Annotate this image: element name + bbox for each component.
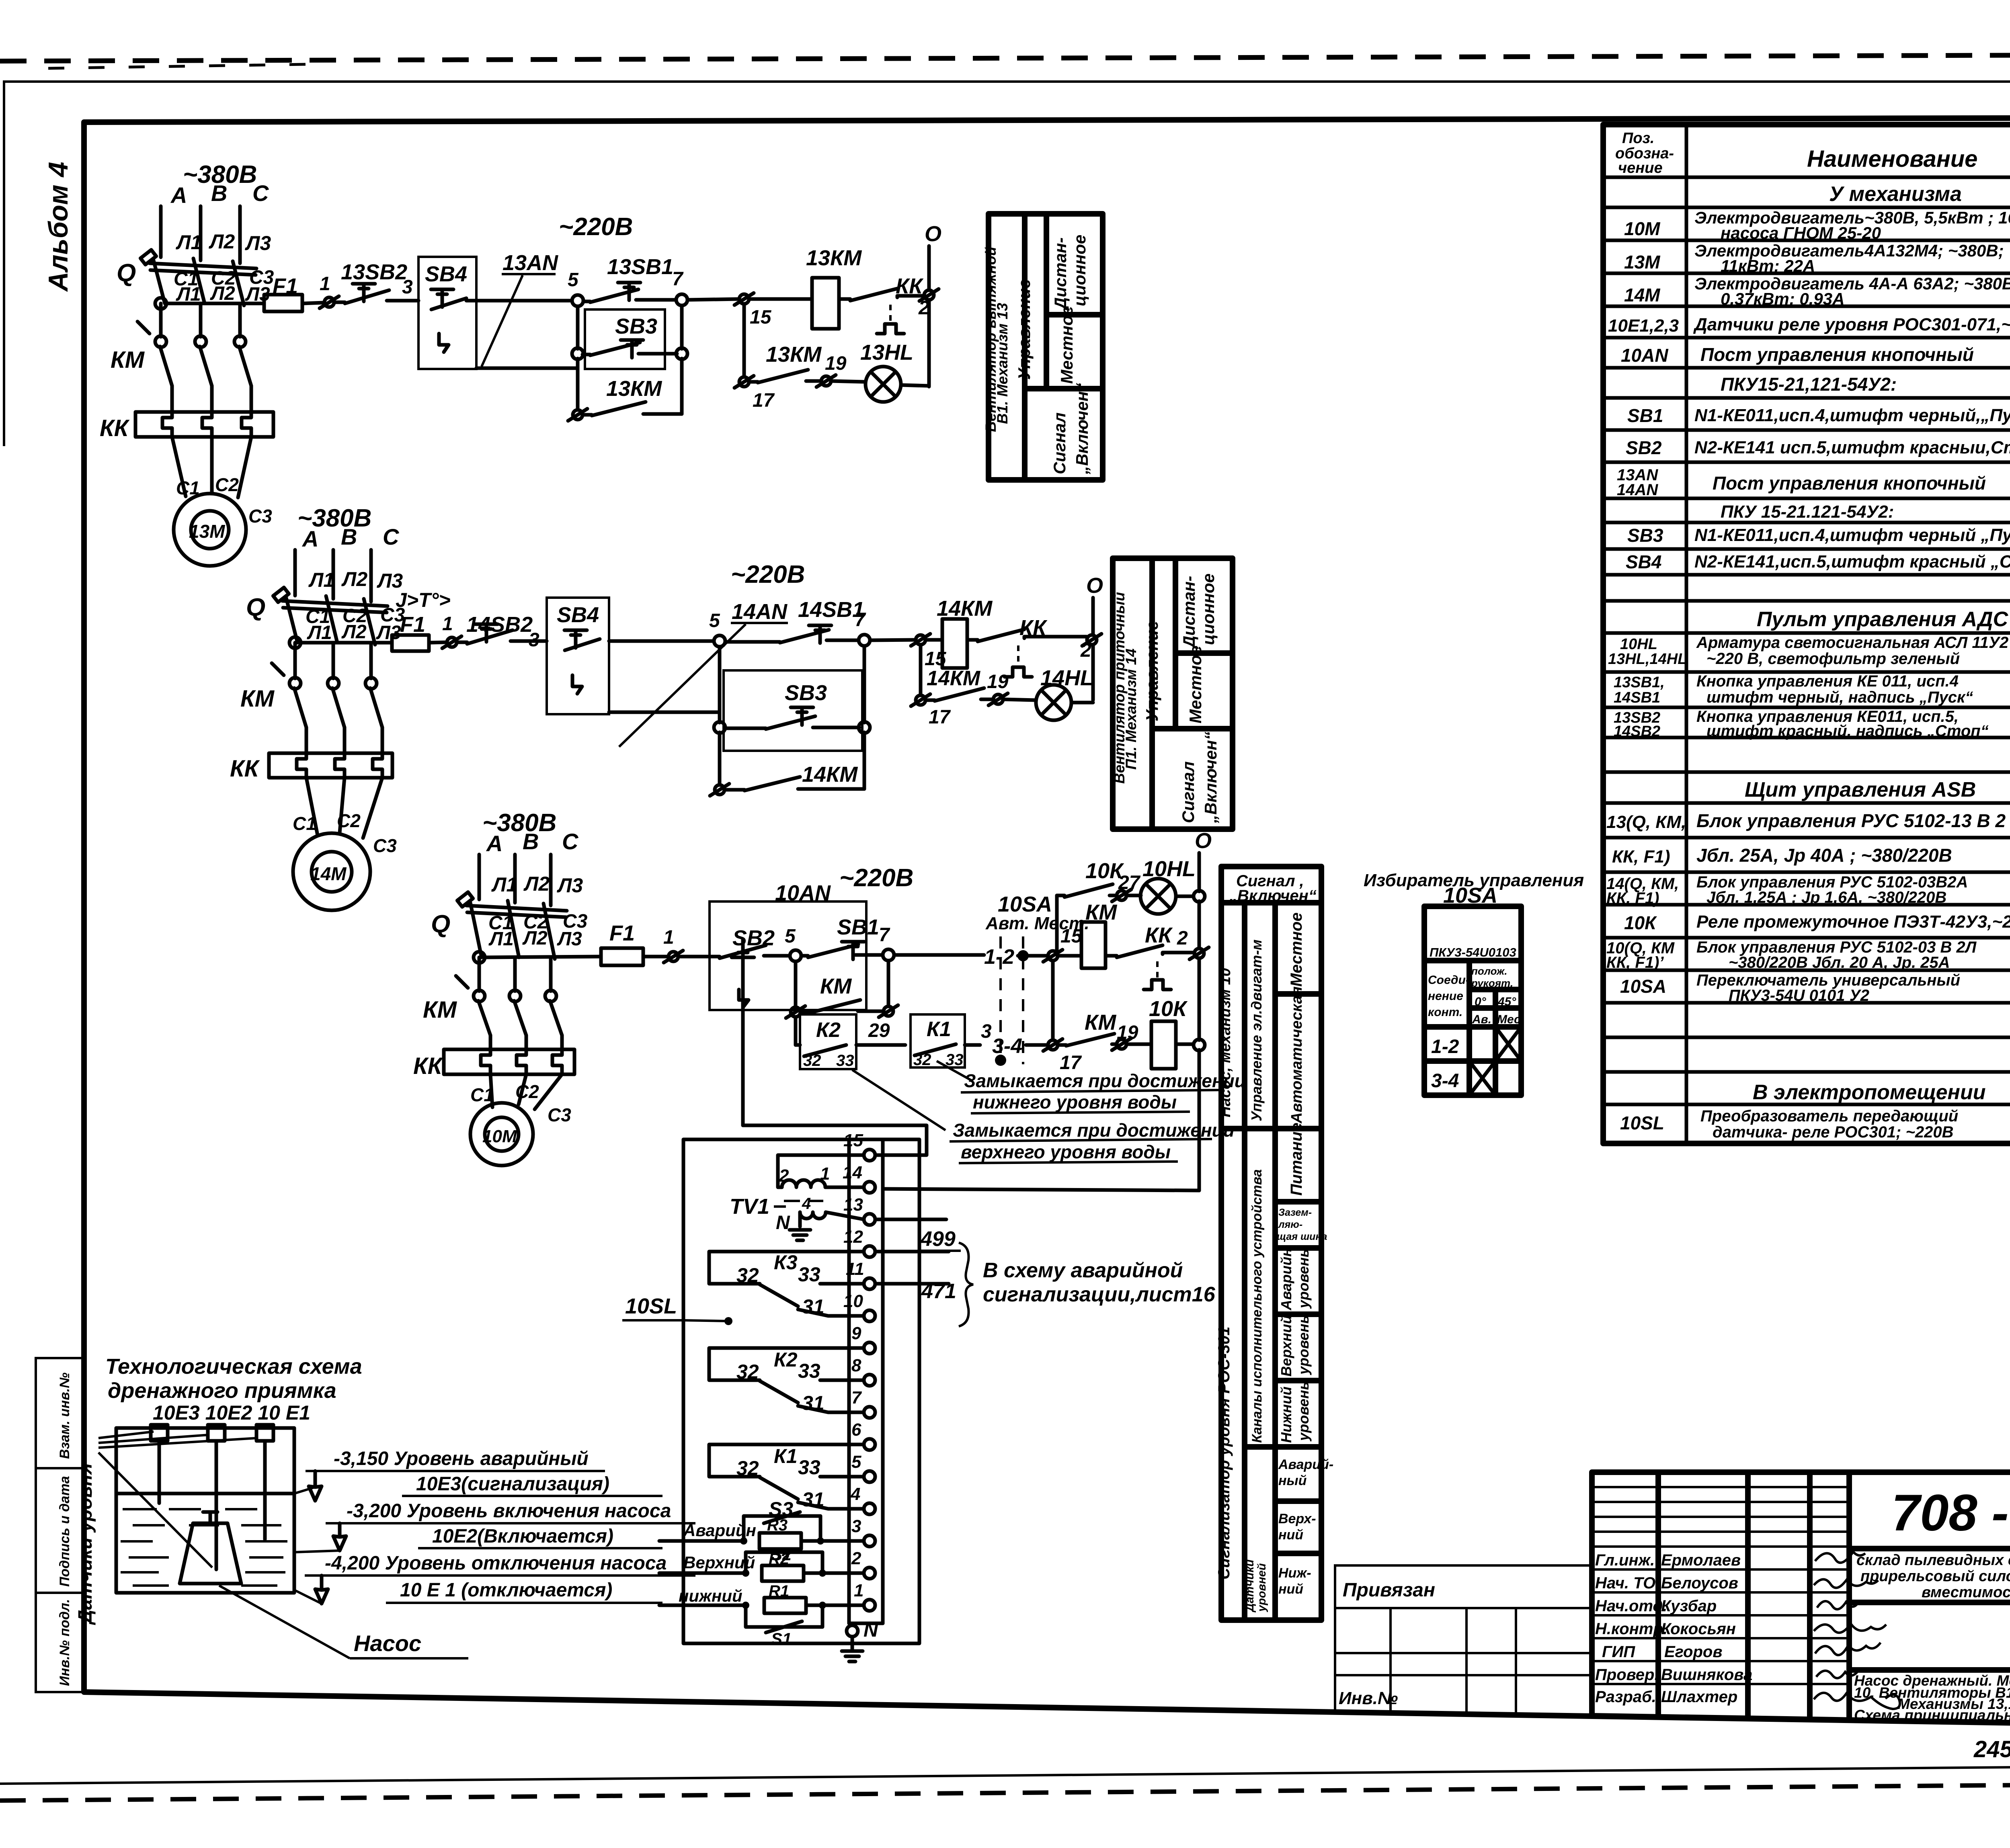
svg-text:Альбом 4: Альбом 4 (43, 162, 74, 292)
svg-text:Сигнализатор уровня РОС-301: Сигнализатор уровня РОС-301 (1215, 1327, 1233, 1580)
wire : bottom tear dashed line (0, 1782, 2010, 1801)
control rung 14 (289, 561, 1103, 796)
svg-text:24533 - 04: 24533 - 04 (1973, 1736, 2010, 1762)
contactor KM main contacts (240, 663, 382, 753)
thermal relay KK (230, 753, 392, 782)
contact KK (967, 638, 978, 642)
svg-text:Л1: Л1 (307, 622, 332, 643)
control rung 13 (155, 213, 941, 421)
svg-text:Л3: Л3 (557, 928, 582, 950)
svg-text:КК: КК (100, 415, 130, 441)
svg-text:В1. Механизм 13: В1. Механизм 13 (994, 303, 1011, 424)
svg-text:ПКУ15-21,121-54У2:: ПКУ15-21,121-54У2: (1721, 374, 1897, 395)
svg-text:Питание: Питание (1288, 1123, 1305, 1196)
svg-text:R3: R3 (767, 1516, 788, 1534)
svg-text:R2: R2 (769, 1550, 789, 1568)
svg-text:2: 2 (1177, 928, 1188, 949)
svg-text:Наименование: Наименование (1807, 146, 1977, 172)
svg-text:SB2: SB2 (732, 926, 775, 950)
svg-text:19: 19 (1117, 1022, 1138, 1043)
svg-text:Соеди-: Соеди- (1428, 973, 1470, 987)
svg-text:~220В: ~220В (731, 561, 805, 588)
svg-text:1: 1 (820, 1164, 830, 1184)
wire : phase A vertical (159, 206, 163, 257)
svg-text:прирельсовый силосного типа (: прирельсовый силосного типа (мобильный) (1860, 1568, 2010, 1585)
svg-text:Шлахтер: Шлахтер (1661, 1688, 1737, 1706)
svg-text:-3,200 Уровень включения насо: -3,200 Уровень включения насоса (347, 1500, 671, 1522)
svg-text:Пост управления кнопочный: Пост управления кнопочный (1700, 344, 1974, 365)
svg-text:Ниж-: Ниж- (1278, 1565, 1311, 1581)
motor 14M (293, 833, 370, 910)
sensor 10E1 (256, 1425, 273, 1441)
svg-text:нижнего уровня воды: нижнего уровня воды (973, 1092, 1177, 1112)
svg-text:уровней: уровней (1255, 1563, 1268, 1612)
wire : top tear dashed line (0, 54, 2010, 61)
svg-text:5: 5 (851, 1452, 861, 1472)
svg-text:10AN: 10AN (1621, 345, 1668, 366)
svg-text:32: 32 (736, 1360, 759, 1383)
contact KK (839, 297, 850, 301)
svg-text:10HL: 10HL (1620, 636, 1657, 653)
svg-text:10М: 10М (1624, 218, 1661, 239)
svg-text:A: A (301, 526, 318, 551)
svg-text:ПКУ3-54U 0101 У2: ПКУ3-54U 0101 У2 (1729, 987, 1869, 1004)
svg-text:Белоусов: Белоусов (1661, 1574, 1738, 1592)
svg-text:В: В (211, 180, 227, 206)
contact K3 (709, 1251, 864, 1318)
wire : phase drops to KM (159, 303, 163, 337)
svg-text:N: N (863, 1619, 878, 1641)
svg-text:Л1: Л1 (176, 231, 202, 254)
svg-text:33: 33 (836, 1052, 854, 1069)
svg-text:Насос: Насос (354, 1631, 421, 1656)
svg-text:КК, F1): КК, F1) (1612, 847, 1670, 867)
svg-text:14КМ: 14КМ (802, 762, 858, 787)
wire : motor leads (490, 1074, 492, 1107)
svg-text:Л2: Л2 (209, 230, 235, 253)
ROS-301 block (622, 1131, 1216, 1662)
svg-text:„Включен“: „Включен“ (1073, 383, 1091, 475)
wire : phase verticals (478, 854, 481, 899)
svg-text:Замыкается при достижении: Замыкается при достижении (964, 1070, 1246, 1091)
svg-text:Замыкается при достижении: Замыкается при достижении (953, 1120, 1235, 1141)
svg-text:КК: КК (230, 756, 260, 782)
wire (609, 639, 714, 643)
svg-text:10: 10 (843, 1291, 863, 1311)
svg-text:Q: Q (246, 594, 265, 621)
sensor channel R2/S2 (659, 1545, 864, 1581)
svg-text:КК, F1)’: КК, F1)’ (1606, 954, 1664, 971)
svg-text:29: 29 (868, 1020, 890, 1041)
node : signatures (1814, 1552, 1900, 1709)
svg-text:С2: С2 (215, 474, 239, 495)
button SB4 (431, 289, 453, 307)
svg-text:10HL: 10HL (1142, 857, 1196, 881)
svg-text:уровень: уровень (1295, 1249, 1312, 1309)
node : sensors leader lines (98, 1432, 154, 1438)
svg-text:14SB1: 14SB1 (1614, 689, 1660, 706)
svg-text:Jбл. 1,25А ; Jр 1,6А, ~380/22: Jбл. 1,25А ; Jр 1,6А, ~380/220В (1706, 889, 1946, 906)
svg-text:сигнализации,лист16: сигнализации,лист16 (983, 1283, 1216, 1306)
svg-text:7: 7 (672, 268, 684, 290)
svg-text:708 - 57.90-ЭМ: 708 - 57.90-ЭМ (1891, 1484, 2010, 1542)
motor 13M (174, 494, 246, 566)
svg-text:SB1: SB1 (837, 915, 879, 939)
svg-text:Авт. Мест.: Авт. Мест. (985, 914, 1089, 933)
svg-text:КК: КК (413, 1053, 443, 1079)
svg-text:12: 12 (843, 1227, 863, 1247)
svg-text:С2: С2 (515, 1081, 539, 1102)
svg-text:Нач.отд.: Нач.отд. (1595, 1597, 1667, 1615)
svg-text:КМ: КМ (111, 347, 145, 373)
svg-text:32: 32 (736, 1264, 759, 1287)
svg-text:33: 33 (946, 1051, 964, 1069)
svg-text:Поз.: Поз. (1622, 130, 1655, 147)
svg-text:11кВт; 22А: 11кВт; 22А (1721, 256, 1815, 275)
lamp branch 10K/10HL (1055, 895, 1059, 951)
svg-text:ционное: ционное (1199, 574, 1218, 645)
svg-text:19: 19 (825, 353, 847, 374)
svg-text:471: 471 (921, 1280, 956, 1303)
svg-text:J>T°>: J>T°> (396, 589, 451, 611)
svg-text:„Включен“: „Включен“ (1201, 731, 1220, 824)
svg-text:С3: С3 (548, 1104, 571, 1125)
thermal relay KK (100, 412, 273, 441)
svg-text:Л2: Л2 (522, 928, 548, 949)
branch SB3 (576, 306, 580, 349)
wire : bus to fuse (474, 952, 485, 963)
svg-text:Автоматическая: Автоматическая (1288, 986, 1305, 1124)
thermal relay KK (413, 1049, 574, 1079)
switch Q (431, 892, 567, 959)
svg-text:Гл.инж.: Гл.инж. (1595, 1551, 1655, 1569)
svg-text:вместимостью 0,5 тыс.тонн: вместимостью 0,5 тыс.тонн (1922, 1584, 2010, 1601)
svg-text:4: 4 (802, 1195, 811, 1213)
svg-text:13М: 13М (189, 521, 226, 542)
svg-text:10М: 10М (482, 1127, 517, 1146)
svg-text:33: 33 (798, 1360, 820, 1382)
node : table frame (1603, 125, 2010, 1143)
svg-text:конт.: конт. (1428, 1006, 1462, 1019)
svg-text:13М: 13М (1624, 252, 1661, 272)
svg-text:Ермолаев: Ермолаев (1661, 1551, 1741, 1569)
node : left margin boxes (36, 1358, 84, 1692)
svg-text:14КМ: 14КМ (927, 667, 981, 690)
wire : thin outer border (4, 82, 2010, 446)
svg-text:Кнопка управления КЕ 011, исп.: Кнопка управления КЕ 011, исп.4 (1696, 672, 1959, 690)
svg-text:Преобразователь передающий: Преобразователь передающий (1700, 1107, 1958, 1125)
svg-text:Л2: Л2 (341, 568, 367, 590)
svg-text:13(Q, КМ,: 13(Q, КМ, (1606, 812, 1686, 832)
wire : phase C vertical (238, 206, 242, 263)
title block (1335, 1472, 2010, 1765)
node : outer box (683, 1139, 919, 1643)
svg-text:Инв.№ подл.: Инв.№ подл. (57, 1599, 72, 1686)
wire : bus to fuse (289, 637, 301, 648)
svg-text:Пульт управления АДС: Пульт управления АДС (1757, 608, 2009, 631)
svg-text:10Е3(сигнализация): 10Е3(сигнализация) (416, 1473, 609, 1495)
svg-text:Л2: Л2 (341, 621, 367, 643)
svg-text:Jбл. 25А, Jр 40А ; ~380/220В: Jбл. 25А, Jр 40А ; ~380/220В (1696, 845, 1952, 866)
svg-text:Аварийн.: Аварийн. (1278, 1244, 1294, 1311)
svg-text:С3: С3 (248, 506, 272, 527)
contact K2 (709, 1348, 864, 1414)
svg-text:9: 9 (851, 1324, 861, 1343)
svg-text:Q: Q (431, 910, 450, 938)
svg-text:Местное: Местное (1186, 645, 1205, 723)
node 15 (734, 293, 754, 305)
svg-text:10Е2(Включается): 10Е2(Включается) (432, 1526, 613, 1547)
post 10AN box (710, 901, 866, 1010)
node : water hatch (121, 1509, 287, 1586)
svg-text:Нижний: Нижний (1278, 1387, 1294, 1443)
node : terminals 1..15 (843, 1131, 875, 1611)
svg-text:Управление: Управление (1142, 621, 1161, 721)
svg-text:В: В (341, 524, 357, 549)
wire : link from SB4 box (476, 367, 578, 370)
sensor channel R3/S3 (659, 1498, 864, 1549)
wire to selector (894, 953, 984, 957)
svg-text:13: 13 (843, 1195, 863, 1215)
svg-text:КМ: КМ (240, 686, 275, 712)
node N ground (842, 1619, 878, 1662)
svg-text:ПКУ 15-21.121-54У2:: ПКУ 15-21.121-54У2: (1721, 502, 1894, 522)
svg-text:КК, F1): КК, F1) (1606, 889, 1659, 907)
svg-text:10SL: 10SL (625, 1294, 677, 1318)
svg-text:F1: F1 (609, 921, 635, 945)
contact KK (1105, 954, 1117, 958)
svg-text:Н.контр.: Н.контр. (1595, 1620, 1667, 1638)
svg-text:Л3: Л3 (245, 232, 271, 254)
note : closes at lower level (852, 1061, 1246, 1163)
svg-text:КК: КК (1145, 923, 1173, 947)
svg-text:15: 15 (843, 1131, 863, 1150)
svg-text:Л1: Л1 (308, 569, 334, 591)
svg-text:7: 7 (879, 924, 890, 946)
transformer TV1 (730, 1155, 864, 1240)
svg-text:0,37кВт; 0,93А: 0,37кВт; 0,93А (1721, 289, 1844, 308)
svg-text:13SB1: 13SB1 (607, 255, 673, 279)
svg-text:5: 5 (568, 269, 579, 291)
wire : small top grid (1592, 1487, 1849, 1532)
wire (870, 640, 916, 640)
svg-text:5: 5 (785, 926, 796, 947)
svg-text:Взам. инв.№: Взам. инв.№ (57, 1373, 72, 1459)
svg-text:13HL: 13HL (860, 340, 913, 365)
svg-text:A: A (170, 182, 187, 208)
wire : row lines (1603, 207, 2010, 1104)
lamp branch (919, 645, 923, 695)
svg-text:Л3: Л3 (557, 874, 583, 897)
svg-text:10AN: 10AN (775, 881, 831, 905)
svg-text:верхнего уровня воды: верхнего уровня воды (961, 1141, 1171, 1162)
svg-text:32: 32 (913, 1051, 931, 1069)
svg-text:У механизма: У механизма (1829, 182, 1962, 206)
motor 10M (470, 1103, 533, 1166)
svg-text:Местное: Местное (1288, 912, 1305, 987)
svg-text:нение: нение (1428, 990, 1463, 1003)
svg-text:3: 3 (402, 277, 413, 298)
svg-text:полож.: полож. (1471, 965, 1507, 977)
svg-text:17: 17 (753, 390, 775, 411)
wire (687, 299, 739, 300)
svg-text:Блок управления РУС 5102-13 В: Блок управления РУС 5102-13 В 2 В (1696, 810, 2010, 831)
svg-text:8: 8 (851, 1356, 861, 1375)
svg-text:3-4: 3-4 (992, 1035, 1022, 1058)
svg-text:1-2: 1-2 (984, 945, 1014, 969)
svg-text:Л3: Л3 (376, 622, 401, 643)
svg-text:С2: С2 (337, 810, 361, 831)
svg-text:~220 В, светофильтр зеленый: ~220 В, светофильтр зеленый (1706, 650, 1960, 668)
wire : bottom thin line (0, 1764, 2010, 1784)
svg-text:27: 27 (1118, 872, 1141, 893)
svg-text:С: С (383, 524, 400, 549)
svg-text:Л1: Л1 (488, 928, 514, 950)
svg-text:Л1: Л1 (491, 873, 517, 896)
svg-text:-4,200 Уровень отключения насо: -4,200 Уровень отключения насоса (325, 1553, 667, 1574)
svg-text:33: 33 (798, 1263, 820, 1286)
node : roles and names (1595, 1551, 1752, 1706)
svg-text:Верх-: Верх- (1278, 1511, 1316, 1526)
svg-text:14: 14 (843, 1163, 862, 1182)
wire : phase B vertical (199, 206, 203, 260)
svg-text:14М: 14М (1624, 285, 1661, 305)
svg-text:ный: ный (1278, 1473, 1307, 1488)
svg-text:Кузбар: Кузбар (1661, 1597, 1717, 1615)
svg-text:К2: К2 (816, 1018, 841, 1042)
svg-text:32: 32 (803, 1052, 821, 1069)
svg-text:К3: К3 (774, 1251, 798, 1274)
svg-text:датчика- реле РОС301; ~220В: датчика- реле РОС301; ~220В (1713, 1123, 1953, 1141)
feeder 13 (100, 161, 274, 566)
svg-text:ционное: ционное (1070, 235, 1089, 306)
wire (466, 299, 572, 303)
svg-text:17: 17 (929, 707, 951, 728)
svg-text:19: 19 (987, 671, 1009, 692)
svg-text:Верхний: Верхний (1278, 1315, 1294, 1377)
svg-text:2: 2 (779, 1166, 789, 1186)
svg-text:П1. Механизм 14: П1. Механизм 14 (1123, 649, 1139, 770)
wire : water level (116, 1492, 294, 1496)
svg-text:дренажного приямка: дренажного приямка (108, 1379, 336, 1403)
sensor 10E3 (151, 1425, 168, 1441)
svg-text:КМ: КМ (423, 997, 457, 1023)
svg-text:С: С (252, 180, 269, 206)
svg-text:SB3: SB3 (615, 314, 657, 338)
switch Q (117, 250, 256, 305)
svg-text:К1: К1 (774, 1445, 798, 1467)
svg-text:14SB2: 14SB2 (1614, 723, 1660, 740)
branch SB3 (718, 647, 722, 723)
svg-text:10Е1,2,3: 10Е1,2,3 (1608, 316, 1679, 336)
svg-text:13SB2: 13SB2 (341, 260, 407, 284)
svg-text:S1: S1 (771, 1629, 792, 1648)
svg-text:Подпись и дата: Подпись и дата (57, 1476, 72, 1587)
svg-text:Ав.: Ав. (1472, 1013, 1491, 1026)
svg-text:ний: ний (1278, 1582, 1303, 1597)
svg-text:10 Е 1 (отключается): 10 Е 1 (отключается) (400, 1580, 612, 1601)
svg-text:1: 1 (320, 273, 330, 295)
wire 499 (875, 1250, 949, 1254)
svg-text:7: 7 (855, 609, 866, 631)
svg-text:КМ: КМ (1085, 1010, 1116, 1035)
svg-text:Датчики: Датчики (1243, 1559, 1256, 1613)
contactor KM main contacts (423, 976, 562, 1049)
lamp branch (742, 304, 746, 377)
svg-text:14КМ: 14КМ (937, 596, 993, 621)
feeder 14 (230, 504, 405, 910)
contact 13KM self-hold (576, 368, 580, 410)
svg-text:Сигнал: Сигнал (1050, 412, 1069, 474)
node : terminal strip (847, 1139, 851, 1623)
svg-text:N1-КЕ011,исп.4,штифт черный „П: N1-КЕ011,исп.4,штифт черный „Пуск“ (1694, 525, 2010, 545)
svg-text:Кокосьян: Кокосьян (1661, 1620, 1736, 1638)
svg-text:10SA: 10SA (1620, 976, 1666, 997)
svg-text:С: С (562, 829, 579, 854)
svg-text:F1: F1 (400, 613, 425, 637)
svg-text:Реле промежуточное ПЭ3Т-42У3,: Реле промежуточное ПЭ3Т-42У3,~220В (1696, 912, 2010, 932)
wire t13 stub (875, 1218, 946, 1221)
node 10SL label (622, 1294, 732, 1325)
svg-text:~380/220В Jбл. 20 А, Jр. 25А: ~380/220В Jбл. 20 А, Jр. 25А (1729, 954, 1950, 971)
wire : bus from switch to fuse (155, 298, 166, 309)
svg-text:Управление эл.двигат-м: Управление эл.двигат-м (1248, 939, 1265, 1121)
svg-text:Датчики реле уровня РОС301-07: Датчики реле уровня РОС301-071,~220В (1693, 315, 2010, 334)
svg-text:14AN: 14AN (1617, 481, 1658, 499)
svg-text:13КМ: 13КМ (766, 342, 822, 367)
wire : motor leads (306, 778, 318, 835)
selector 10SA (1364, 871, 1584, 1095)
node : tank (116, 1428, 294, 1593)
switch Q (246, 588, 388, 645)
svg-text:SB4: SB4 (557, 603, 599, 627)
svg-text:Разраб.: Разраб. (1595, 1688, 1656, 1706)
svg-text:Инв.№: Инв.№ (1339, 1688, 1398, 1708)
post 13AN box (418, 257, 476, 369)
contact KM self-hold (794, 961, 798, 1012)
sensor channel R1/S1 (659, 1582, 864, 1648)
svg-text:В схему аварийной: В схему аварийной (983, 1259, 1183, 1282)
svg-text:Каналы исполнительного устройс: Каналы исполнительного устройства (1249, 1169, 1265, 1443)
svg-text:С3: С3 (373, 835, 397, 856)
svg-text:Технологическая схема: Технологическая схема (105, 1354, 362, 1379)
contactor KM main contacts (111, 322, 251, 412)
svg-text:нижний: нижний (679, 1586, 742, 1605)
wire : link from SB4 box (609, 711, 720, 714)
tall table 10 (1215, 867, 1333, 1620)
svg-text:Датчики уровня: Датчики уровня (75, 1463, 96, 1625)
svg-text:Дистан-: Дистан- (1051, 238, 1070, 311)
svg-text:O: O (1086, 574, 1103, 598)
svg-text:Л2: Л2 (523, 873, 550, 895)
pit drawing (75, 1354, 695, 1658)
svg-text:32: 32 (736, 1457, 759, 1479)
svg-text:11: 11 (846, 1259, 864, 1279)
svg-text:штифт черный, надпись „Пуск“: штифт черный, надпись „Пуск“ (1706, 688, 1973, 706)
svg-text:13SB1,: 13SB1, (1614, 674, 1665, 691)
svg-text:O: O (1195, 829, 1212, 853)
svg-text:10К: 10К (1149, 997, 1188, 1021)
svg-text:Мес.: Мес. (1497, 1013, 1524, 1026)
box signal 13 (982, 214, 1103, 480)
svg-text:щая шина: щая шина (1277, 1231, 1327, 1242)
wire : motor leads (172, 437, 186, 496)
contact 14KM self-hold (718, 732, 722, 785)
svg-text:SB4: SB4 (425, 262, 467, 286)
feeder 10 (413, 809, 588, 1166)
svg-text:N2-КЕ141,исп.5,штифт красный „: N2-КЕ141,исп.5,штифт красный „Стоп“ (1694, 552, 2010, 572)
svg-text:Привязан: Привязан (1343, 1580, 1435, 1601)
